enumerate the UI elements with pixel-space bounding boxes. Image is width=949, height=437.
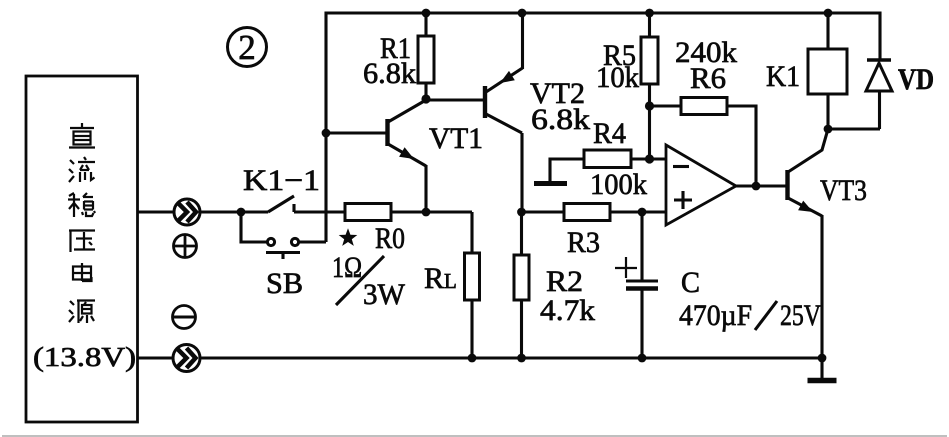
svg-text:6.8k: 6.8k <box>531 103 590 136</box>
svg-text:VD: VD <box>898 63 934 96</box>
svg-text:4.7k: 4.7k <box>540 294 595 327</box>
svg-text:25V: 25V <box>780 299 821 332</box>
svg-text:R4: R4 <box>593 117 626 150</box>
svg-text:6.8k: 6.8k <box>363 57 416 90</box>
svg-text:VT3: VT3 <box>820 174 867 207</box>
svg-text:SB: SB <box>266 267 303 300</box>
svg-text:K1−1: K1−1 <box>243 164 320 197</box>
svg-text:VT1: VT1 <box>429 122 483 155</box>
svg-text:R3: R3 <box>567 226 600 259</box>
svg-text:2: 2 <box>238 28 256 67</box>
svg-text:100k: 100k <box>590 168 647 201</box>
svg-text:C: C <box>681 266 700 299</box>
svg-text:1Ω: 1Ω <box>332 251 362 284</box>
svg-text:10k: 10k <box>596 61 639 94</box>
svg-text:470µF: 470µF <box>679 299 752 332</box>
svg-text:(13.8V): (13.8V) <box>33 342 136 372</box>
svg-text:3W: 3W <box>363 278 406 311</box>
svg-text:R0: R0 <box>375 222 405 255</box>
svg-text:K1: K1 <box>766 60 800 93</box>
svg-text:R6: R6 <box>690 62 726 95</box>
